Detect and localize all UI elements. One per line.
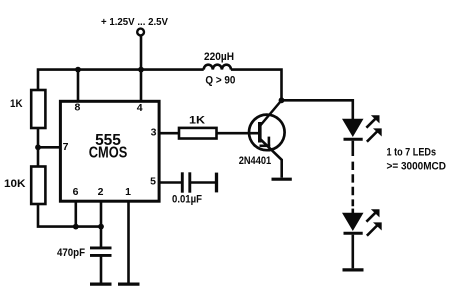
svg-text:7: 7 [63,141,69,153]
wire divider node to pin 7 [38,146,61,149]
svg-text:2: 2 [98,186,104,198]
wire collector node to LED chain [282,100,353,119]
wire top rail right + corner down to collector node [231,70,282,100]
ground bar under pin 1 [118,283,140,286]
svg-text:0.01µF: 0.01µF [172,194,202,206]
ground bar under D2 [343,268,364,271]
ground bar at C2 [215,173,218,193]
wire R3 to base [217,132,259,135]
capacitor C1 470pF [90,248,112,256]
svg-text:5: 5 [150,176,156,188]
svg-text:+ 1.25V ... 2.5V: + 1.25V ... 2.5V [101,16,168,28]
resistor R1 1K (left top) [31,90,45,128]
svg-text:3: 3 [151,127,157,139]
resistor R2 10K (left bottom) [31,167,45,205]
wire pin 2 down to C1 [100,201,103,247]
LED D1 arrows [366,115,381,141]
svg-text:1K: 1K [10,98,23,110]
transistor Q1 2N4401 [249,100,285,177]
svg-text:1 to 7 LEDs: 1 to 7 LEDs [387,147,437,159]
wire supply stem [140,36,143,70]
svg-text:>= 3000MCD: >= 3000MCD [387,161,447,173]
capacitor C2 0.01uF [182,172,190,192]
wire pin 1 to ground [127,201,130,283]
wire R2 bottom to pins 6/2 [38,204,101,227]
svg-text:4: 4 [137,102,143,114]
svg-text:8: 8 [74,102,80,114]
wire C1 to ground [100,256,103,282]
svg-text:6: 6 [73,186,79,198]
inductor L1 220uH [204,65,231,70]
supply terminal + label "+ 1.25V ... 2.5V" [137,29,144,36]
IC U1 555 CMOS [60,101,159,201]
LED D2 arrows [366,209,381,235]
svg-text:220µH: 220µH [204,51,234,63]
wire R1 bottom to R2 top [37,128,40,167]
svg-text:Q > 90: Q > 90 [205,75,235,87]
svg-text:CMOS: CMOS [89,145,128,162]
wire pin 4 to rail [140,70,143,102]
wire pin 8 to rail [77,70,80,102]
wire pin 3 to R3 [158,132,179,135]
wire stub to D2 [351,209,354,214]
LED D2 [342,213,364,269]
wire C2 to ground [191,181,215,184]
svg-text:1K: 1K [189,115,205,127]
wire pin 5 to C2 [158,181,181,184]
junction dot pin2 [98,224,104,230]
svg-text:470pF: 470pF [57,247,85,259]
wire top rail left (down-left corner to 1K R1 top) [38,70,204,90]
ground bar under C1 [90,283,112,286]
junction dot pin4/supply [138,67,144,73]
LED D1 [342,119,364,156]
svg-text:1: 1 [125,186,131,198]
ground bar at emitter [272,178,292,181]
junction dot divider node [35,144,41,150]
wire dashed (LED chain continues) [351,162,354,207]
resistor R3 1K (base) [179,128,217,139]
junction dot collector node [279,97,285,103]
junction dot pin6 [73,224,79,230]
wire pin 6 [75,201,78,227]
svg-text:2N4401: 2N4401 [239,155,272,167]
svg-text:10K: 10K [4,178,26,190]
junction dot pin8/rail [75,67,81,73]
